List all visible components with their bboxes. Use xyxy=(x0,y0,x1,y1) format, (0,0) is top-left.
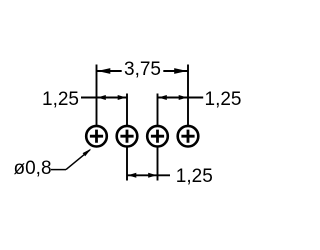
extension line pin1 (up) xyxy=(96,65,98,126)
extension line pin3 (up) xyxy=(157,94,159,126)
pad P1 (pin 1, x=96.5) xyxy=(86,126,107,147)
dimension 1,25 bottom arrow at pin2 xyxy=(128,173,137,178)
extension line pin3 (down) xyxy=(157,147,159,181)
svg-text:ø0,8: ø0,8 xyxy=(14,158,52,179)
dimension 1,25 right arrow at pin3 xyxy=(158,95,167,100)
leader arrowhead at pad P1 xyxy=(83,149,92,157)
dimension 1,25 right line xyxy=(158,97,204,99)
dimension 1,25 left arrow at pin2 xyxy=(118,95,127,100)
pad P2 (pin 2, x=127) xyxy=(117,126,138,147)
dimension 1,25 bottom arrow at pin3 xyxy=(148,173,157,178)
svg-text:1,25: 1,25 xyxy=(205,89,242,110)
extension line pin2 (down) xyxy=(126,147,128,181)
extension line pin2 (up) xyxy=(126,94,128,126)
dimension 1,25 left line xyxy=(81,97,127,99)
leader line diagonal xyxy=(66,150,90,170)
svg-text:1,25: 1,25 xyxy=(176,166,213,187)
pad P4 (pin 4, x=188) xyxy=(178,126,199,147)
dimension 3,75 arrow right xyxy=(174,68,187,74)
dimension 3,75 line right segment xyxy=(163,70,188,72)
svg-text:3,75: 3,75 xyxy=(124,59,161,80)
dimension 1,25 bottom line xyxy=(127,174,170,176)
extension line pin4 (up) xyxy=(187,65,189,126)
pad P3 (pin 3, x=157.5) xyxy=(147,126,168,147)
dimension 1,25 left arrow at pin1 xyxy=(97,95,106,100)
dimension 1,25 right arrow at pin4 xyxy=(179,95,188,100)
leader line horizontal xyxy=(51,169,66,171)
dimension 3,75 line left segment xyxy=(97,70,122,72)
svg-text:1,25: 1,25 xyxy=(42,89,79,110)
dimension 3,75 arrow left xyxy=(97,68,110,74)
